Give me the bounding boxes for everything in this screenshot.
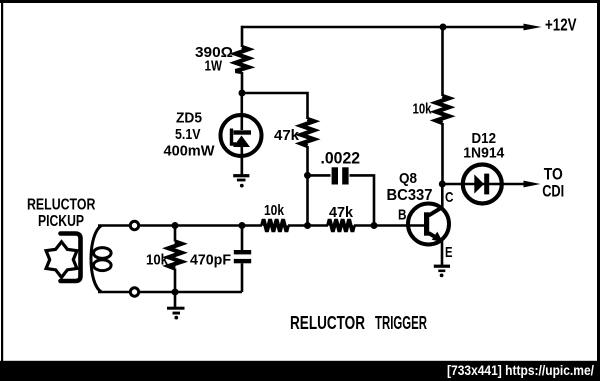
svg-text:Q8: Q8 [399, 170, 417, 187]
svg-text:RELUCTOR: RELUCTOR [290, 313, 365, 333]
svg-text:+12V: +12V [545, 14, 577, 34]
svg-text:5.1V: 5.1V [175, 127, 201, 143]
svg-text:.0022: .0022 [321, 149, 361, 168]
svg-text:400mW: 400mW [164, 143, 215, 159]
svg-text:1N914: 1N914 [463, 145, 505, 162]
svg-text:E: E [445, 244, 453, 261]
svg-text:1W: 1W [205, 58, 223, 75]
svg-text:47k: 47k [329, 204, 354, 221]
svg-text:CDI: CDI [542, 183, 564, 201]
svg-text:10k: 10k [264, 202, 285, 219]
svg-text:PICKUP: PICKUP [38, 213, 84, 230]
svg-text:10k: 10k [146, 252, 169, 269]
svg-text:10k: 10k [413, 101, 432, 118]
svg-text:B: B [398, 207, 407, 224]
svg-text:47k: 47k [274, 127, 300, 144]
svg-text:BC337: BC337 [387, 187, 433, 204]
svg-text:RELUCTOR: RELUCTOR [27, 197, 95, 214]
svg-text:ZD5: ZD5 [176, 110, 202, 126]
svg-text:470pF: 470pF [190, 252, 231, 269]
svg-text:[733x441] https://upic.me/: [733x441] https://upic.me/ [447, 362, 594, 378]
svg-text:C: C [445, 189, 454, 206]
svg-text:TRIGGER: TRIGGER [375, 313, 427, 333]
svg-text:TO: TO [544, 165, 563, 183]
